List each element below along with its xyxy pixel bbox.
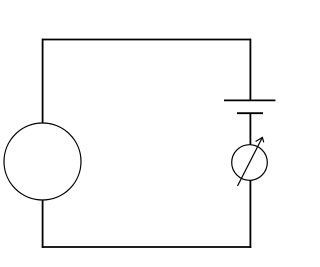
- wire: left vertical lower (source bottom to corner): [42, 200, 44, 248]
- wire: right vertical upper (corner to battery): [249, 39, 251, 101]
- wire: bottom horizontal: [42, 246, 252, 248]
- wire: right vertical lower (meter to corner): [249, 180, 251, 248]
- wire: top horizontal: [43, 39, 251, 41]
- battery cell: short plate (negative): [237, 112, 263, 114]
- meter arrow head: [256, 137, 264, 142]
- wire: left vertical upper (corner to source top): [42, 39, 44, 124]
- meter arrow shaft: [238, 137, 263, 186]
- wire: right vertical middle (battery to meter): [249, 113, 251, 145]
- meter (circle): [232, 145, 268, 181]
- battery cell: long plate (positive): [224, 99, 275, 101]
- source (circle component): [4, 123, 81, 200]
